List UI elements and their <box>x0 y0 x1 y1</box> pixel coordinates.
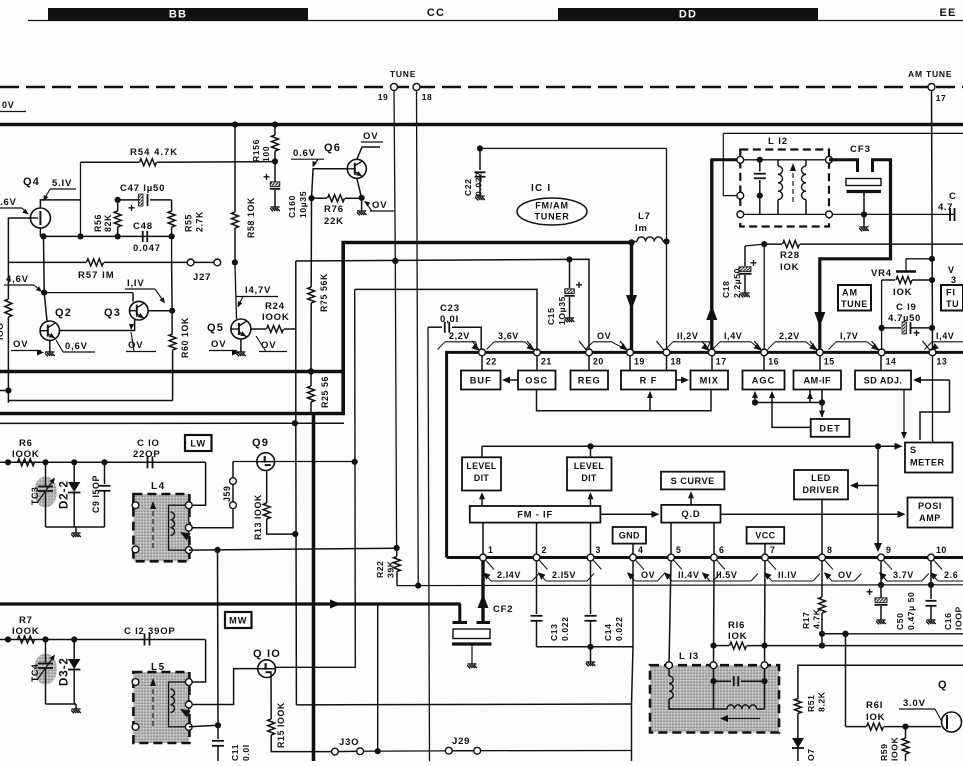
IC internal block AM-IF <box>794 371 842 390</box>
svg-text:3: 3 <box>951 275 957 285</box>
wire: thick riser x343 <box>341 241 345 415</box>
svg-text:3: 3 <box>596 545 601 555</box>
pin 22 (IC1 top) <box>472 341 480 350</box>
svg-text:17: 17 <box>936 93 946 103</box>
wire: R60 bottom return loop <box>8 400 172 402</box>
svg-text:C11: C11 <box>230 744 240 761</box>
section bar DD <box>558 8 818 20</box>
IC internal block DET <box>811 419 850 437</box>
svg-text:DRIVER: DRIVER <box>802 485 839 495</box>
pin 13 (IC1 top) <box>923 341 931 350</box>
transistor Q4 <box>30 208 50 228</box>
svg-text:0.0I: 0.0I <box>241 744 251 761</box>
wire: MW tuned row y639.5 <box>0 639 206 641</box>
svg-text:15: 15 <box>824 357 835 367</box>
svg-text:DD: DD <box>679 9 697 21</box>
Q.D pin drops 5,6 <box>670 523 672 556</box>
svg-text:IOO: IOO <box>0 322 5 340</box>
svg-text:SD ADJ.: SD ADJ. <box>864 375 903 385</box>
wire: R55 to J27 row crossing <box>171 236 173 262</box>
resistor R13 100K <box>266 470 268 503</box>
band box MW <box>225 612 252 628</box>
wire: R54 left leg x80 <box>80 162 82 236</box>
svg-text:OSC: OSC <box>525 375 548 385</box>
node: C11 branch <box>214 547 220 553</box>
wire: x845 drop to R61 row <box>845 634 847 727</box>
svg-text:R6: R6 <box>19 438 33 449</box>
node: on J30/J29 wire <box>375 748 381 754</box>
varactor diode D3-2 <box>73 640 75 660</box>
node: C47/R56 <box>115 197 121 203</box>
svg-text:RI6: RI6 <box>728 620 745 631</box>
svg-text:AGC: AGC <box>752 375 775 385</box>
svg-text:0.022: 0.022 <box>560 616 570 641</box>
svg-text:6: 6 <box>719 545 724 555</box>
svg-text:TC3: TC3 <box>30 487 40 505</box>
trimmer TC4 <box>34 654 57 685</box>
svg-text:IOK: IOK <box>780 262 799 273</box>
svg-text:22: 22 <box>486 357 497 367</box>
svg-text:IOOK: IOOK <box>262 312 289 323</box>
wire: thick bus y371 <box>0 370 344 374</box>
svg-text:Q6: Q6 <box>324 142 341 154</box>
node: C16 tap <box>928 582 934 588</box>
svg-text:L I3: L I3 <box>679 651 699 662</box>
arrows FM-IF to LEVEL DIT <box>481 494 483 506</box>
node: TUNE18/R22 bottom <box>415 583 421 589</box>
svg-text:5: 5 <box>676 545 681 555</box>
node: C50 tap <box>878 582 884 588</box>
L12 primary coil <box>777 160 779 166</box>
ground (Q2) <box>49 340 51 352</box>
wire: pin7 down to L13 <box>764 561 767 665</box>
pin 1 (IC1 bottom) <box>480 554 487 561</box>
wire: L12 bottom internal to C <box>740 213 954 215</box>
node: C15 top <box>566 256 572 262</box>
MW ground bus <box>46 703 77 705</box>
svg-text:OV: OV <box>372 200 387 211</box>
svg-text:S CURVE: S CURVE <box>671 476 715 486</box>
IC internal block GND <box>613 527 646 544</box>
svg-text:OV: OV <box>641 570 655 580</box>
wire: thick line to CF2 <box>0 602 461 605</box>
node: Q6 emitter <box>359 195 365 201</box>
svg-text:R59: R59 <box>879 743 889 761</box>
wire: pin16 vertical <box>763 244 765 351</box>
wire: TUNE19 down to R22 <box>395 261 396 548</box>
svg-text:2.6: 2.6 <box>944 570 958 580</box>
node: L7 right <box>663 238 669 244</box>
arrow FM-IF to Q.D <box>600 513 657 515</box>
svg-text:R F: R F <box>640 375 658 385</box>
svg-text:1Oµ35: 1Oµ35 <box>557 296 567 325</box>
L5 tuning arrow <box>152 681 154 726</box>
svg-text:C47 Iµ50: C47 Iµ50 <box>120 183 165 194</box>
svg-text:0.47µ 50: 0.47µ 50 <box>906 592 916 630</box>
IC internal block SD ADJ <box>855 371 911 390</box>
wire: VR4 wiper to AM TUNE line <box>906 259 932 272</box>
svg-text:BUF: BUF <box>470 375 492 385</box>
wire: thick vertical bus x313 <box>312 413 316 762</box>
svg-text:POSI: POSI <box>918 501 942 511</box>
IC internal block LEVEL DIT 1 <box>462 457 501 490</box>
svg-text:J27: J27 <box>193 272 211 283</box>
IC internal block AGC <box>743 371 785 390</box>
wire: C23 left leg x428 down <box>428 327 430 761</box>
wire: S meter drive row <box>482 445 900 447</box>
wire: pin6 down to L13 <box>713 561 716 665</box>
svg-text:IOOP: IOOP <box>953 606 963 630</box>
resistor R17 4.7K <box>821 561 823 597</box>
wire: thick bus y413 <box>0 412 345 416</box>
wire: thick pin19 drop <box>630 243 633 352</box>
wire: pin18 vertical <box>666 148 668 351</box>
wire: reg row (pin20/C15) <box>296 259 589 351</box>
IC internal block RF <box>621 371 676 390</box>
svg-text:TUNE: TUNE <box>841 299 868 309</box>
wire: x296 column <box>295 423 298 705</box>
svg-text:C160: C160 <box>287 195 297 218</box>
node: Q3/R60 <box>169 308 175 314</box>
pin 21 (IC1 top) <box>527 341 535 350</box>
svg-text:Q5: Q5 <box>207 322 224 334</box>
wire: L12 top internal <box>740 159 829 161</box>
wire: output row to right edge <box>846 633 963 635</box>
resistor R60 10K <box>171 311 173 334</box>
node: R58 tap on bus <box>232 121 238 127</box>
svg-text:CF2: CF2 <box>493 604 513 615</box>
pin 16 (IC1 top) <box>754 341 762 350</box>
pin 7 (IC1 bottom) <box>762 554 769 561</box>
ground (Q5) <box>240 339 242 352</box>
svg-text:+: + <box>866 585 874 599</box>
svg-text:DIT: DIT <box>474 473 490 483</box>
svg-text:R56: R56 <box>93 214 103 232</box>
node: R156 tap on bus <box>272 121 278 127</box>
node: left edge return <box>5 387 11 393</box>
capacitor C15 10u35 <box>569 260 571 289</box>
node: R59 tap <box>902 724 908 730</box>
pin 20 (IC1 top) <box>579 341 587 350</box>
pin 10 (IC1 bottom) <box>928 554 935 561</box>
wire: long rail under bottom pin labels <box>397 584 963 587</box>
svg-text:+: + <box>913 326 921 340</box>
svg-text:+: + <box>263 170 271 184</box>
FM-IF pin drops 1,2,3 <box>482 523 484 556</box>
svg-text:R13 IOOK: R13 IOOK <box>253 494 263 540</box>
resistor R76 22K <box>312 197 328 199</box>
svg-text:TUNE: TUNE <box>390 69 416 79</box>
svg-text:J59: J59 <box>222 486 232 502</box>
resistor R55 2.7K <box>171 200 173 211</box>
svg-text:3.7V: 3.7V <box>893 570 914 580</box>
top frame line <box>28 20 963 22</box>
svg-text:OV: OV <box>838 570 852 580</box>
capacitor C16 100P <box>930 561 932 599</box>
dashed page boundary <box>0 86 963 89</box>
wire: J30 to J29 <box>364 750 446 752</box>
wire: row to L5 top <box>189 640 206 683</box>
svg-text:R7: R7 <box>19 615 33 626</box>
svg-text:100: 100 <box>261 146 271 162</box>
wire: row to L4 top <box>189 462 206 505</box>
svg-text:R24: R24 <box>265 301 285 312</box>
svg-text:OV: OV <box>211 339 226 350</box>
wire: C22/pin18 row <box>480 147 667 149</box>
svg-text:IOK: IOK <box>893 287 912 298</box>
LED DRIVER pin drop 8 <box>821 499 823 556</box>
svg-text:0.6V: 0.6V <box>293 148 316 159</box>
svg-text:Q4: Q4 <box>23 176 40 188</box>
svg-text:LEVEL: LEVEL <box>574 461 605 471</box>
svg-text:0,6V: 0,6V <box>65 341 88 352</box>
capacitor C11 0,01 <box>217 725 219 739</box>
svg-text:5.IV: 5.IV <box>52 178 72 189</box>
svg-text:II.5V: II.5V <box>716 570 738 580</box>
svg-text:C23: C23 <box>440 303 460 314</box>
svg-text:IOK: IOK <box>866 712 885 723</box>
svg-text:I,4V: I,4V <box>936 331 954 341</box>
VR4 wiper bar <box>896 270 916 273</box>
svg-text:39K: 39K <box>385 560 395 578</box>
IC internal block S METER <box>905 443 953 473</box>
IC internal block LEVEL DIT 2 <box>567 457 612 490</box>
wire: main 0V bus (top) <box>0 123 963 126</box>
svg-text:FM - IF: FM - IF <box>517 509 553 520</box>
svg-text:3.0V: 3.0V <box>903 698 926 709</box>
wire: L4 bottom row <box>189 548 397 550</box>
IC1 block outline <box>447 352 963 557</box>
svg-text:14: 14 <box>886 357 897 367</box>
ground (CF2) <box>467 664 477 668</box>
ground (Q6 emitter) <box>361 198 363 211</box>
svg-text:IC I: IC I <box>531 183 551 194</box>
pin 6 (IC1 bottom) <box>711 554 718 561</box>
arrow RF to MIX <box>676 379 687 381</box>
svg-text:4,6V: 4,6V <box>6 274 29 285</box>
svg-text:R54 4.7K: R54 4.7K <box>130 147 178 158</box>
svg-text:C22: C22 <box>463 178 473 196</box>
transistor Q3 <box>130 301 149 320</box>
svg-text:R156: R156 <box>251 139 261 162</box>
L12 tuning arrow (dashed) <box>792 166 794 202</box>
resistor R57 1M + left resistor <box>8 261 86 263</box>
node: Q2 base <box>41 290 47 296</box>
svg-text:BB: BB <box>169 9 187 21</box>
trimmer TC3 <box>34 477 57 508</box>
svg-text:Q.D: Q.D <box>681 508 700 519</box>
svg-text:+: + <box>576 278 584 292</box>
node: R13 to x296 <box>292 531 298 537</box>
signal arrow pin 17 (up) <box>706 305 717 320</box>
IC1 function oval FM/AM TUNER <box>517 198 587 225</box>
svg-text:Q9: Q9 <box>252 437 269 449</box>
wire: AM TUNE vertical x932 <box>932 91 933 352</box>
svg-text:21: 21 <box>541 357 552 367</box>
svg-text:0.022: 0.022 <box>473 171 483 196</box>
svg-text:I,7V: I,7V <box>840 331 858 341</box>
terminal 18 (TUNE) <box>413 84 420 91</box>
resistor R75 56K <box>310 198 312 287</box>
terminal 17 (AM TUNE) <box>928 84 935 91</box>
node: L5 bottom row <box>215 722 221 728</box>
wire: C13/C14 ground bus <box>537 646 634 648</box>
ceramic filter CF2 <box>481 561 484 622</box>
svg-text:S: S <box>910 445 917 455</box>
svg-text:13: 13 <box>937 357 948 367</box>
ground (C160) <box>270 207 280 211</box>
node: R17/output row <box>819 631 825 637</box>
IC internal block BUF <box>461 371 501 390</box>
svg-text:0.047: 0.047 <box>133 243 161 254</box>
svg-text:Q2: Q2 <box>55 307 72 319</box>
pin 17 (IC1 top) <box>702 341 710 350</box>
node: TUNE19/reg row <box>392 258 398 264</box>
wire: thick line to L7/pin19 <box>342 241 632 244</box>
capacitor C13 0.022 <box>536 561 538 614</box>
svg-text:19: 19 <box>378 92 388 102</box>
svg-text:I,4V: I,4V <box>724 331 742 341</box>
svg-text:AMP: AMP <box>919 513 941 523</box>
svg-text:II.IV: II.IV <box>778 570 797 580</box>
node: R156/C160/R54 <box>272 158 278 164</box>
svg-text:OV: OV <box>597 331 611 341</box>
capacitor C14 0.022 <box>590 561 592 614</box>
capacitor (inside L12) <box>759 160 761 172</box>
resistor R15 100K <box>270 673 272 720</box>
svg-text:18: 18 <box>422 92 432 102</box>
svg-text:Q IO: Q IO <box>253 648 281 660</box>
svg-text:DET: DET <box>819 423 840 433</box>
pin 9 (IC1 bottom) <box>878 554 885 561</box>
svg-text:2.2µ50: 2.2µ50 <box>732 268 742 298</box>
IC internal block OSC <box>518 371 556 390</box>
signal arrow into pin 15 <box>814 312 825 327</box>
wire: thick bus drop to J30 x378 <box>377 604 379 751</box>
resistor R22 39K <box>396 548 398 556</box>
svg-text:19: 19 <box>634 357 645 367</box>
wire: Q4 emitter to Q2 base <box>43 236 46 292</box>
L12 secondary coil <box>805 160 807 166</box>
wire: pin14 vertical <box>881 280 883 351</box>
svg-text:LW: LW <box>190 438 206 448</box>
arrow OSC to BUF <box>504 379 518 381</box>
svg-text:82K: 82K <box>103 214 113 232</box>
node: R75/R25 junction on bus <box>308 368 314 374</box>
IC internal block Q.D <box>661 505 720 523</box>
resistor R58 10K <box>234 125 236 213</box>
node: C22 top <box>477 145 483 151</box>
svg-text:10: 10 <box>936 545 947 555</box>
svg-text:3,6V: 3,6V <box>498 331 519 341</box>
jumper J59 <box>232 462 234 478</box>
wire: J29 to gnd net <box>481 750 631 752</box>
svg-text:C48: C48 <box>133 221 153 232</box>
svg-text:II,2V: II,2V <box>677 331 699 341</box>
svg-text:I,IV: I,IV <box>127 278 144 289</box>
svg-text:LED: LED <box>811 473 831 483</box>
node: CF3 ground <box>861 211 867 217</box>
wire: AGC/AM-IF/DET links <box>754 393 756 403</box>
svg-text:GND: GND <box>619 531 640 541</box>
svg-text:R6I: R6I <box>866 700 883 711</box>
capacitor C18 2.2u50 <box>745 244 764 246</box>
svg-text:R75 56K: R75 56K <box>319 273 329 312</box>
svg-text:0.022: 0.022 <box>614 616 624 641</box>
wire: R58 to Q5 base <box>235 262 237 318</box>
svg-text:9: 9 <box>886 545 891 555</box>
svg-text:VCC: VCC <box>755 531 775 541</box>
svg-text:TC4: TC4 <box>30 664 40 682</box>
IC internal block REG <box>571 371 609 390</box>
svg-text:REG: REG <box>578 375 601 385</box>
wire: pin13 into S METER <box>932 356 934 443</box>
terminal 19 (TUNE) <box>391 84 398 91</box>
svg-text:L I2: L I2 <box>768 136 788 147</box>
svg-text:OV: OV <box>363 131 378 142</box>
svg-text:16: 16 <box>768 357 779 367</box>
node: L7 left / pin19 feed <box>628 239 634 245</box>
svg-text:.6V: .6V <box>0 197 17 208</box>
capacitor C160 10u35 <box>274 161 276 182</box>
capacitor C9 150P <box>104 462 106 484</box>
svg-text:AM: AM <box>842 288 858 298</box>
pin 5 (IC1 bottom) <box>668 554 675 561</box>
pin 14 (IC1 top) <box>872 341 880 350</box>
node: R28/C18/pin16 <box>761 241 767 247</box>
svg-text:D2-2: D2-2 <box>59 480 71 509</box>
wire: Q2/Q3 base row <box>44 292 133 294</box>
svg-text:4.7K: 4.7K <box>811 608 821 629</box>
svg-text:C9 I5OP: C9 I5OP <box>91 475 101 513</box>
signal arrow into CF2 <box>478 594 489 608</box>
svg-text:R55: R55 <box>184 214 194 232</box>
svg-text:II.4V: II.4V <box>678 570 700 580</box>
svg-text:R17: R17 <box>801 611 811 629</box>
svg-text:R28: R28 <box>780 250 800 261</box>
svg-text:D3-2: D3-2 <box>59 657 71 686</box>
svg-text:C18: C18 <box>721 280 731 298</box>
wire: CF3 to pin15 thick path <box>820 160 891 351</box>
svg-text:R60 1OK: R60 1OK <box>180 317 190 358</box>
jumper J27 <box>191 261 218 263</box>
signal arrow on CF2 line <box>330 600 341 609</box>
svg-text:MW: MW <box>229 615 247 625</box>
pin 3 (IC1 bottom) <box>587 554 594 561</box>
svg-text:Q3: Q3 <box>104 307 121 319</box>
svg-text:V: V <box>948 265 955 275</box>
IC internal block POSI AMP <box>908 498 953 528</box>
wire: Q4 emitter row <box>39 228 41 236</box>
svg-text:C IO: C IO <box>137 438 160 449</box>
svg-text:AM TUNE: AM TUNE <box>908 69 952 79</box>
pin 15 (IC1 top) <box>810 341 818 350</box>
svg-text:8.2K: 8.2K <box>816 691 826 712</box>
resistor R25 56 <box>310 372 312 387</box>
wire: S meter row drop to LED DRIVER / pin9 <box>875 443 881 449</box>
svg-text:R15 IOOK: R15 IOOK <box>276 702 286 748</box>
IC internal block S CURVE <box>661 472 724 490</box>
wire: aux row x798 <box>798 665 963 699</box>
diode D7 <box>792 738 804 748</box>
wire: TUNE 18 vertical <box>417 91 419 586</box>
svg-text:R57 IM: R57 IM <box>78 270 115 281</box>
pin 19 (IC1 top) <box>620 341 628 350</box>
wire: Q6 base <box>312 169 348 198</box>
svg-text:MIX: MIX <box>700 375 719 385</box>
wire: pin21 AM osc link <box>355 289 537 351</box>
wire: Q4 gate loop <box>8 218 30 262</box>
